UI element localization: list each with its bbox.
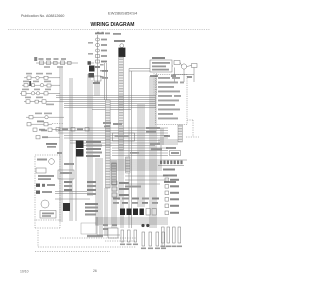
svg-text:Publication No. A08812660: Publication No. A08812660 [21,14,64,18]
svg-text:10/10: 10/10 [20,269,29,273]
svg-text:EW28BS85KS4: EW28BS85KS4 [108,10,138,15]
svg-text:WIRING DIAGRAM: WIRING DIAGRAM [91,22,135,28]
svg-text:26: 26 [93,269,97,273]
